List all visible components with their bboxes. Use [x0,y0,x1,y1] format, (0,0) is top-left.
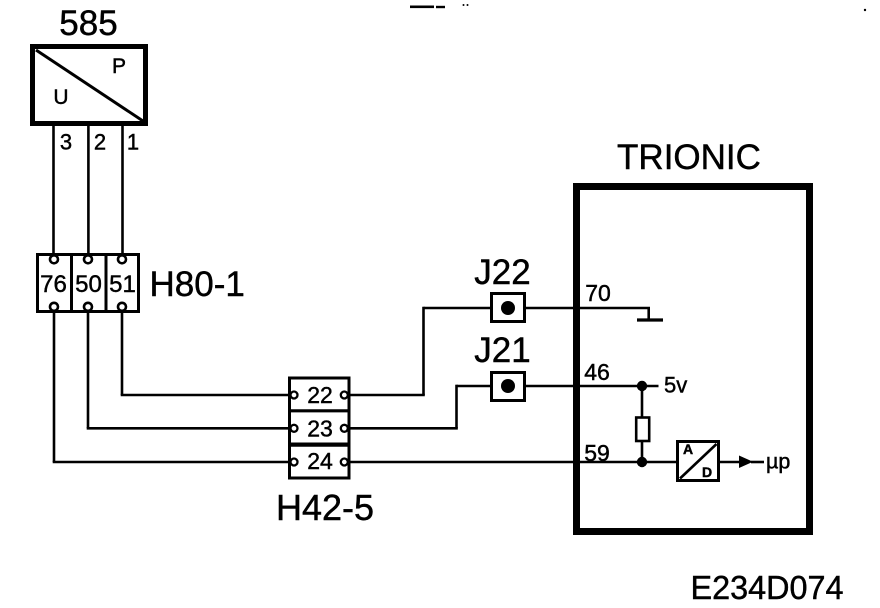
svg-text:1: 1 [127,130,139,155]
svg-text:51: 51 [109,271,136,298]
svg-text:22: 22 [307,382,333,408]
svg-text:59: 59 [584,440,610,466]
svg-text:TRIONIC: TRIONIC [617,138,761,177]
svg-text:23: 23 [307,416,333,442]
svg-text:50: 50 [75,271,102,298]
svg-text:H42-5: H42-5 [276,487,374,528]
svg-text:46: 46 [584,359,610,385]
svg-text:5v: 5v [664,373,687,398]
svg-text:H80-1: H80-1 [150,265,245,304]
svg-text:3: 3 [60,130,72,155]
svg-text:70: 70 [585,280,611,306]
svg-text:2: 2 [94,130,106,155]
svg-text:µp: µp [766,450,790,474]
svg-text:J21: J21 [474,331,530,370]
svg-text:J22: J22 [474,253,530,292]
svg-text:24: 24 [307,448,333,474]
svg-text:U: U [53,86,68,109]
svg-text:E234D074: E234D074 [691,570,844,607]
svg-text:D: D [702,464,712,480]
svg-text:76: 76 [40,271,67,298]
svg-text:585: 585 [59,4,117,43]
svg-text:P: P [112,55,126,78]
svg-text:A: A [683,441,693,457]
